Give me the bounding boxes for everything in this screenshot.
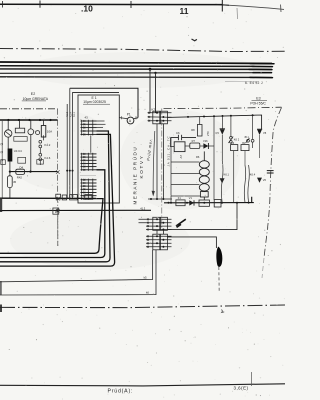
block E1 border box — [78, 95, 119, 203]
connector stack S2 — [81, 153, 97, 171]
frame dash-dot line upper — [0, 49, 285, 52]
bottom tick — [250, 372, 252, 386]
wire stack A to E3 rail — [167, 203, 237, 230]
wire x222 from top — [221, 116, 223, 129]
fuse F1 — [176, 197, 185, 206]
wire k5 — [0, 250, 153, 282]
S3 pin cross marks — [83, 179, 85, 200]
component row box d — [85, 195, 92, 200]
dash-dot stub below W2 — [57, 214, 59, 246]
ladder rung 3 — [171, 183, 199, 185]
wire box to ammeter — [119, 118, 127, 119]
svg-text:k5: k5 — [144, 276, 147, 280]
left edge ink blob 1 — [0, 199, 2, 212]
faint scan smudges — [5, 52, 260, 270]
E3 node wire top — [167, 115, 261, 129]
component row box c — [70, 195, 78, 200]
svg-text:E3: E3 — [256, 97, 260, 101]
S1 row extensions — [97, 121, 106, 128]
svg-text:6. E4 92 J: 6. E4 92 J — [245, 81, 263, 85]
ruler faint tick x237 — [236, 8, 239, 19]
component row box b — [62, 195, 66, 200]
ruler tick x131 — [130, 1, 132, 8]
svg-text:P1: P1 — [127, 112, 131, 116]
capacitor C6 — [171, 135, 197, 140]
capacitor plates right — [267, 171, 274, 173]
wire bus to K7 pin b — [155, 73, 157, 113]
nested bus wire W1 — [0, 197, 96, 199]
block E3 title — [250, 97, 267, 106]
relay contact K6.1 — [221, 160, 229, 203]
diode V3 — [215, 129, 225, 160]
transistor V4 — [5, 120, 12, 149]
wire left edge vertical — [1, 120, 3, 198]
box B1 — [241, 142, 249, 151]
resistor R7 — [185, 139, 200, 148]
connector stack S1 — [81, 120, 97, 136]
junction on bus wire 3 — [149, 68, 152, 71]
svg-text:V5: V5 — [263, 131, 267, 135]
ruler top border line — [0, 3, 222, 5]
svg-text:(4: (4 — [0, 158, 3, 162]
wire E1 vertical c — [72, 92, 74, 198]
ink blob — [216, 247, 222, 267]
relay contact K6.4 — [244, 165, 255, 203]
svg-text:45.1: 45.1 — [244, 136, 249, 139]
capacitor C4 electrolytic — [8, 149, 23, 162]
wire end ticks — [122, 116, 137, 119]
svg-text:Prúd(A):: Prúd(A): — [108, 389, 134, 395]
svg-text:(0: (0 — [0, 150, 3, 154]
junction on bus wire 4 — [154, 72, 156, 74]
ruler tick left — [2, 1, 4, 8]
stack B dots — [156, 235, 164, 248]
wire E1 vertical b — [69, 88, 71, 198]
diode V1 — [189, 197, 194, 205]
terminal box row b — [37, 160, 44, 165]
svg-text:k6: k6 — [146, 291, 149, 295]
bus right end emphasis — [249, 64, 274, 78]
terminal box row a — [1, 160, 6, 165]
resistor R4 — [41, 120, 52, 137]
wire C4 down — [9, 162, 11, 176]
junction dots rail mid — [9, 171, 32, 173]
block E1 title — [83, 96, 110, 104]
svg-text:11: 11 — [180, 6, 189, 16]
wire K7 down a — [156, 124, 158, 199]
bottom dots — [256, 395, 261, 397]
stack A dots — [156, 218, 164, 230]
box B2 — [214, 200, 221, 207]
scan pepper specks — [9, 13, 278, 381]
wire x214 vertical — [213, 116, 215, 200]
bus wire 4 — [0, 72, 272, 75]
resistor Rb — [15, 120, 24, 133]
small ink mark near dash line — [192, 39, 197, 41]
stack B cross marks — [147, 235, 149, 248]
ruler cross mark — [216, 0, 230, 12]
node dots — [187, 114, 254, 118]
svg-text:.10: .10 — [81, 4, 93, 14]
junction dots row — [150, 198, 164, 200]
nested bus wire W2 — [0, 209, 151, 211]
S1 pin cross marks — [83, 120, 85, 135]
diode V16 — [200, 139, 214, 149]
wire E1 vertical a — [66, 104, 68, 198]
wire K7 down b — [162, 124, 164, 199]
svg-text:45: 45 — [13, 180, 17, 184]
junction dots on verticals — [66, 170, 73, 172]
wire R45 to lower rail — [9, 188, 11, 199]
varistor chain — [199, 151, 209, 199]
ruler tick x40 — [39, 1, 41, 8]
junction row under arrow — [148, 198, 172, 200]
ammeter P1 — [127, 112, 134, 124]
svg-text:V6: V6 — [263, 178, 267, 182]
border crossing tick 1 — [56, 170, 60, 173]
svg-text:K6.4: K6.4 — [250, 172, 256, 176]
connector stack S3 — [81, 179, 97, 200]
bottom connector stack B cell b — [160, 234, 167, 250]
wire stack B to blob column — [167, 237, 216, 248]
E3 bottom rail — [164, 197, 254, 203]
svg-text:POH 55/C: POH 55/C — [250, 101, 266, 105]
node rail E2 top — [0, 119, 58, 121]
bus wire 5 — [0, 76, 272, 79]
bus wire 2 — [0, 65, 272, 68]
stack A cross marks — [147, 218, 149, 230]
block E3 border left (dash-dot) — [161, 109, 163, 231]
block E2 title — [22, 92, 49, 101]
K7 pin cross marks — [148, 112, 150, 122]
wire x233 from top — [230, 116, 232, 137]
capacitor C8 box — [231, 142, 238, 151]
K7 junction dots — [156, 112, 164, 122]
inter-stack bus wire — [90, 135, 92, 152]
S2 pin cross marks — [83, 153, 85, 171]
node rail E2 mid — [10, 171, 58, 173]
bottom connector stack A cell a — [153, 217, 160, 230]
resistor R1 — [199, 200, 209, 206]
connector K7 cell b — [160, 111, 167, 124]
frame dash-dot line lower — [0, 305, 285, 308]
junction dot W2 — [57, 209, 59, 211]
bottom connector stack B cell a — [153, 234, 160, 250]
diode V5 circle — [28, 120, 34, 172]
handwritten arrow — [153, 131, 155, 195]
resistor R8 — [191, 117, 202, 136]
ladder rung 4 — [171, 195, 200, 197]
contact K4.2 — [39, 135, 44, 153]
svg-text:41.3: 41.3 — [140, 207, 146, 211]
resistor R42 — [16, 169, 25, 179]
ruler end tick — [280, 5, 283, 13]
ladder rung 1 — [171, 161, 199, 163]
separator dots between stacks — [81, 175, 97, 177]
diode D4 box — [18, 157, 26, 169]
junction dots on rail — [7, 119, 51, 121]
resistor R45 — [7, 176, 16, 188]
handwritten slash mark — [176, 219, 186, 227]
routed bus corner P3 — [0, 131, 110, 262]
diode under K6.1 — [220, 178, 225, 183]
wire ammeter to return — [134, 117, 138, 120]
bus wire 1 — [0, 62, 272, 64]
border crossing tick 2 — [56, 197, 60, 200]
routed bus corner P1 — [0, 199, 103, 254]
svg-text:10µm GRENATA: 10µm GRENATA — [23, 97, 49, 101]
component box D4.5 — [14, 137, 27, 142]
wire ammeter return — [73, 91, 120, 93]
svg-text:B1: B1 — [71, 194, 75, 198]
wire bus to K7 pin a — [149, 69, 151, 113]
block E2 border top (dash-dot) — [0, 108, 58, 110]
block E2 border right (dash-dot) — [57, 109, 59, 246]
svg-text:(9: (9 — [0, 142, 3, 146]
ladder left bus — [170, 138, 172, 203]
wavy border fade tail — [262, 258, 264, 278]
wire relay top feeds — [244, 151, 246, 165]
ruler right segment — [222, 5, 284, 9]
wire stack A down to B — [157, 230, 163, 234]
component box on W2 — [53, 208, 59, 214]
svg-text:3,6(E): 3,6(E) — [234, 386, 249, 391]
wire x250 from top — [252, 115, 254, 139]
K7 pin rows — [148, 113, 172, 121]
wire ammeter feed left — [70, 88, 138, 117]
opto A7 — [174, 142, 185, 159]
block E3 border right wavy (dash-dot) — [264, 108, 281, 257]
routed bus corner P4 — [0, 134, 115, 266]
left edge ink blob 3 — [0, 305, 2, 313]
blob fading tail — [218, 267, 220, 291]
inductor L6 — [246, 138, 254, 143]
ladder rung 2 — [171, 173, 199, 175]
diode under K6.4 — [257, 178, 267, 183]
handwritten squiggle under line — [222, 310, 225, 313]
bottom connector stack A cell b — [160, 217, 167, 230]
wire x257 from top — [252, 142, 254, 148]
contact K6.3 — [228, 137, 233, 144]
left edge ink blob 2 — [0, 281, 2, 295]
wire C6 branch — [171, 138, 175, 147]
contact K4.6 — [39, 153, 42, 165]
wire under C8 — [230, 143, 232, 145]
bus wire 3 — [0, 68, 272, 71]
svg-text:E2: E2 — [31, 92, 35, 96]
wire k6 — [0, 250, 156, 295]
block E3 border top (dash-dot) — [164, 107, 282, 108]
diode V5 — [257, 129, 267, 158]
border crossing tick 3 — [56, 209, 60, 212]
indicator O5 — [36, 131, 40, 135]
stack B pin rows — [146, 236, 172, 247]
stack A pin rows — [139, 219, 172, 229]
bottom rule — [0, 384, 285, 386]
connector K7 cell a — [153, 111, 160, 124]
component row on W1: box a — [56, 194, 61, 199]
faint stub under bus right — [225, 81, 258, 83]
svg-text:10µm 0203025: 10µm 0203025 — [83, 100, 106, 104]
routed bus corner P2 — [0, 170, 105, 258]
rail junction dots — [168, 202, 250, 204]
